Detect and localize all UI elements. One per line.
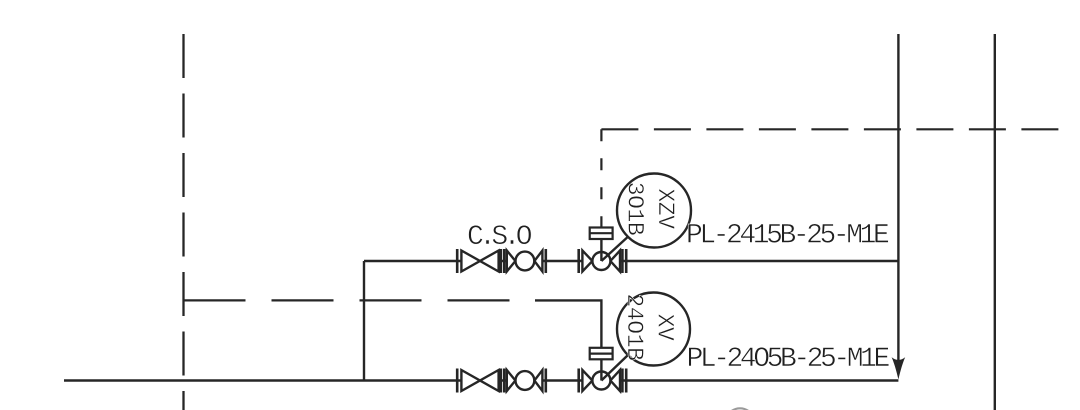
- wire: lower main pipe PL-2405B (horizontal): [64, 379, 898, 381]
- partial instrument bubble at bottom edge: [726, 408, 755, 410]
- wire: upper instrument signal line (dashed, corner at valve stem): [601, 129, 1062, 227]
- actuated ball valve XZV-301B (upper line): [579, 249, 627, 273]
- label C.S.O (car seal open): [467, 222, 532, 253]
- svg-text:PL-2415B-25-M1E: PL-2415B-25-M1E: [686, 221, 889, 252]
- actuator of XZV-301B: [590, 228, 613, 262]
- wire: left area-boundary dashed line (vertical): [182, 34, 184, 410]
- wire: upper pipe PL-2415B (horizontal): [364, 260, 898, 262]
- wire: branch riser from lower pipe to upper pipe: [363, 261, 365, 381]
- actuator of XV-2401B: [590, 348, 613, 381]
- ball valve (upper line): [504, 249, 546, 273]
- arrow: flow arrow into lower pipe: [892, 357, 906, 379]
- instrument bubble XZV-301B: [617, 174, 691, 248]
- ball valve (lower line): [504, 369, 546, 393]
- wire: right header line with flow arrow (vertical): [897, 34, 899, 362]
- leader line from valve to instrument bubble XV-2401B: [601, 355, 628, 381]
- instrument bubble XV-2401B: [617, 293, 690, 366]
- label line number PL-2405B-25-M1E: [687, 344, 890, 375]
- gate valve (lower line): [457, 369, 501, 393]
- svg-text:PL-24O5B-25-M1E: PL-24O5B-25-M1E: [687, 344, 890, 375]
- wire: lower instrument signal line (dashed then corner down to actuator): [184, 300, 602, 347]
- svg-text:C.S.O: C.S.O: [467, 222, 532, 253]
- gate valve (upper line, C.S.O): [457, 249, 501, 273]
- wire: far right boundary line (vertical): [994, 34, 996, 410]
- label line number PL-2415B-25-M1E: [686, 221, 889, 252]
- leader line from valve to instrument bubble XZV-301B: [601, 236, 628, 261]
- actuated ball valve XV-2401B (lower line): [579, 369, 627, 393]
